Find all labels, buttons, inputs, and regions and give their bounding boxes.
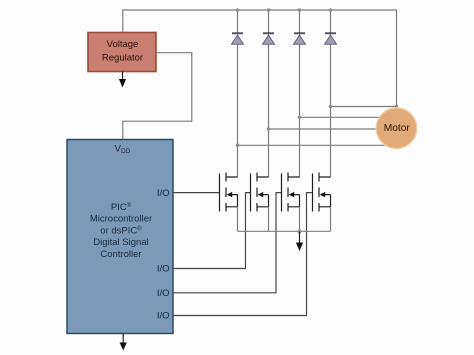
node junction C on column 2 [267,127,271,131]
node ground junction [297,229,301,233]
wire I/O4 to Q4 gate [173,193,313,316]
wire top supply rail [123,10,397,108]
wire source ground rail [238,230,331,232]
wire drain column 2 [268,10,270,177]
transistor Q4 [313,173,331,212]
motor M1 [376,108,417,149]
node rail junction 2 [267,8,271,12]
svg-text:Regulator: Regulator [102,53,143,64]
ground (source rail) [296,231,303,251]
wire I/O2 to Q2 gate [173,193,251,269]
wire source Q3 to rail [299,207,301,232]
svg-text:Microcontroller: Microcontroller [90,214,152,225]
transistor Q2 [251,173,269,212]
wire motor lead A (column 4) [331,106,397,108]
node junction D on column 1 [236,144,240,148]
diode D1 [232,32,244,44]
transistor Q1 [220,173,238,212]
wire source Q2 to rail [268,207,270,232]
svg-text:Motor: Motor [384,123,411,134]
ground (regulator) [119,72,126,88]
node rail junction 4 [329,8,333,12]
svg-text:I/O: I/O [157,311,170,322]
voltage regulator U1 [88,33,156,72]
wire motor lead D (column 1) [238,144,391,146]
PIC microcontroller U2 [67,140,173,334]
svg-text:Controller: Controller [100,249,141,260]
wire motor lead C (column 2) [269,128,379,130]
wire motor lead B (column 3) [300,116,382,118]
wire drain column 4 [330,10,332,177]
wire I/O1 to Q1 gate [173,192,220,194]
node rail junction 1 [236,8,240,12]
diode D3 [294,32,306,44]
node junction A at supply drop [395,105,399,109]
node rail junction 3 [298,8,302,12]
svg-text:or dsPIC®: or dsPIC® [100,225,142,236]
diode D4 [325,32,337,44]
transistor Q3 [282,173,300,212]
svg-text:I/O: I/O [157,264,170,275]
svg-text:Voltage: Voltage [107,39,139,50]
wire drain column 3 [299,10,301,177]
wire source Q1 to rail [237,207,239,232]
wire I/O3 to Q3 gate [173,193,282,293]
svg-text:I/O: I/O [157,288,170,299]
node junction A on column 4 [329,105,333,109]
svg-text:Digital Signal: Digital Signal [93,237,148,248]
diode D2 [263,32,275,44]
wire regulator output to VDD [123,53,192,140]
wire source Q4 to rail [330,207,332,232]
node junction B on column 3 [298,116,302,120]
ground (PIC) [120,334,127,351]
svg-text:I/O: I/O [157,188,170,199]
wire drain column 1 [237,10,239,177]
